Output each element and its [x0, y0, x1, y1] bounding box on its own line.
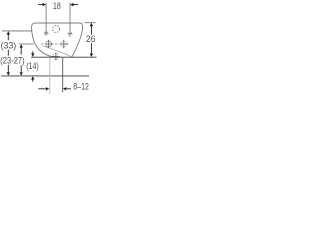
outlet extension line gray [49, 57, 51, 94]
fixing hole extension line left [45, 3, 47, 36]
wc pan outline [31, 23, 82, 57]
svg-text:(23-27): (23-27) [0, 56, 24, 66]
svg-text:8–12: 8–12 [73, 82, 89, 92]
dimension 8-12 arrows [38, 88, 45, 90]
centerline dashes to outlet [41, 43, 44, 45]
bottom outlet symbol [53, 54, 59, 60]
trap curve [43, 46, 72, 57]
dimension 18 arrows [38, 4, 43, 6]
fixing hole right [68, 33, 72, 35]
dimension 26 line and arrows [90, 23, 93, 27]
dimension 23-27 line and arrows [20, 44, 23, 48]
fixing hole extension line right [69, 3, 71, 37]
svg-text:26: 26 [86, 34, 95, 45]
vertical outlet reference line [62, 57, 64, 92]
extension line rim left (33) [2, 30, 33, 32]
water inlet dashed circle [53, 26, 60, 33]
floor line [1, 75, 89, 77]
outlet horizontal position [46, 41, 52, 47]
dimension 14 arrows [32, 51, 34, 53]
dimension 33 line and arrows [7, 31, 10, 34]
extension line outlet centerline (23-27) [19, 43, 34, 45]
svg-text:(14): (14) [26, 61, 39, 71]
outlet alternative position dashed [61, 41, 67, 47]
svg-text:(33): (33) [1, 40, 17, 50]
svg-text:18: 18 [53, 1, 61, 11]
extension line top right (26) [85, 22, 96, 24]
fixing hole left [44, 32, 48, 34]
bottom edge line [31, 56, 97, 58]
